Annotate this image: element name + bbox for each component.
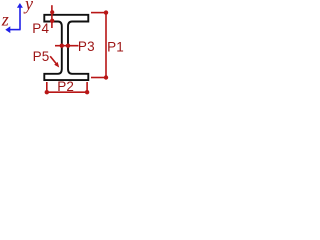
dimension P4 (flange thickness) line (50, 5, 54, 28)
dimension P2 (flange width) line (45, 82, 90, 94)
svg-text:P4: P4 (32, 21, 49, 36)
dimension P3 (web thickness) line (55, 44, 79, 48)
svg-text:z: z (1, 10, 9, 30)
svg-text:P5: P5 (33, 49, 50, 64)
svg-text:y: y (23, 0, 33, 14)
svg-text:P3: P3 (78, 39, 95, 54)
axis y arrow (17, 3, 23, 30)
svg-text:P2: P2 (57, 79, 74, 94)
dimension P5 (fillet) leader arrow (50, 56, 59, 67)
I-section outline (44, 15, 88, 80)
dimension P1 (section height) line (91, 10, 108, 79)
background (0, 0, 130, 100)
axis z arrow (5, 26, 20, 33)
svg-text:P1: P1 (107, 40, 124, 55)
